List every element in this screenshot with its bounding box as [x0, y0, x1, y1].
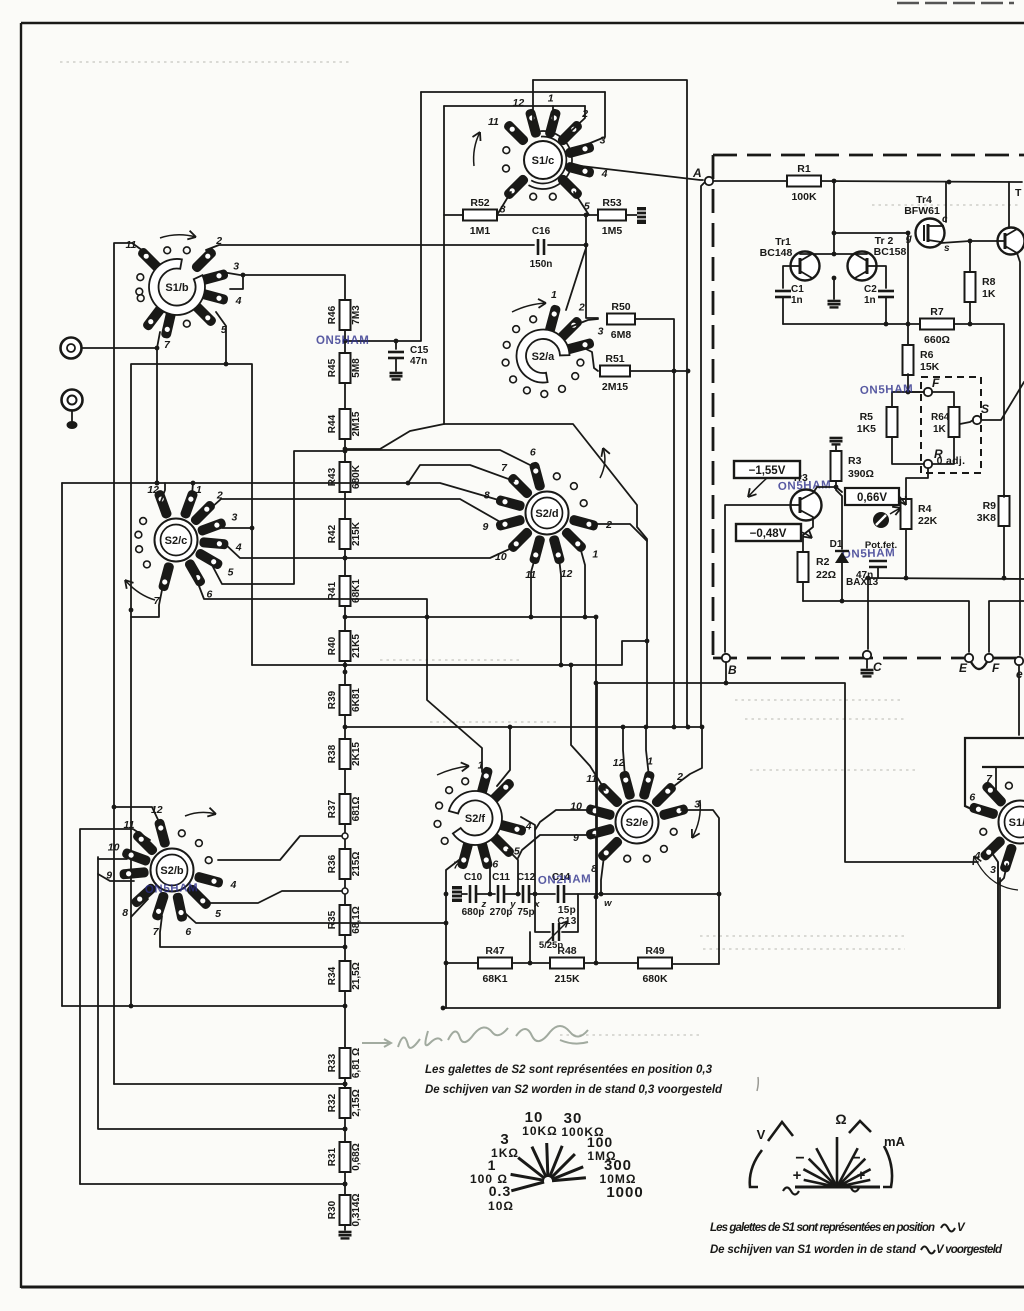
wire S1/a pin 3 join — [998, 864, 1007, 884]
wire S2/c pin 6 to S2/f bus — [194, 573, 427, 617]
wire S1/b pin 5 down-left bus — [129, 312, 226, 1008]
svg-text:R6: R6 — [920, 349, 934, 361]
wire riser e to S1/a box — [1018, 665, 1020, 735]
resistor R30 0,314Ω — [327, 1193, 362, 1226]
svg-text:R53: R53 — [602, 197, 621, 209]
wire bus x98 down to chain node 1129 — [98, 857, 347, 1131]
handwritten pencil note — [362, 1026, 588, 1048]
wire S1/c pin 12 up — [532, 80, 534, 122]
svg-text:ON5HAM: ON5HAM — [316, 335, 369, 347]
node e — [1015, 657, 1023, 681]
svg-text:3: 3 — [598, 325, 604, 337]
svg-text:R38: R38 — [327, 744, 338, 763]
resistor R42 215K — [327, 519, 362, 549]
wire S2/f pin 4 to x node — [521, 817, 537, 896]
wire bus y683 right — [726, 683, 978, 862]
wire S1/c pin 2 up — [570, 106, 585, 132]
capacitor C2 1n — [864, 284, 894, 306]
svg-text:−1,55V: −1,55V — [749, 465, 786, 477]
resistor R39 6K81 — [327, 685, 362, 715]
wire enclosure S2/a bottom — [444, 424, 647, 727]
wire bus y665 from chain — [252, 639, 649, 668]
svg-text:10KΩ: 10KΩ — [522, 1124, 558, 1138]
wire R4 down to bus — [905, 530, 907, 578]
svg-text:215K: 215K — [554, 973, 580, 985]
rotary switch S1/b — [125, 231, 241, 351]
svg-text:ON2HAM: ON2HAM — [538, 873, 592, 887]
wire C2 down — [885, 297, 887, 324]
svg-text:R40: R40 — [327, 636, 338, 655]
wire S1/b pin 4 join pin 3 wire — [230, 273, 245, 289]
svg-text:3: 3 — [233, 261, 239, 273]
transistor Tr1 BC148 — [760, 236, 820, 281]
resistor R2 — [798, 552, 809, 582]
svg-text:2,15Ω: 2,15Ω — [351, 1089, 362, 1116]
wire S2/e pin 12 up — [623, 727, 625, 777]
svg-text:BC148: BC148 — [760, 247, 793, 259]
svg-text:1n: 1n — [864, 295, 876, 306]
svg-text:7: 7 — [501, 462, 508, 474]
svg-text:6: 6 — [185, 926, 191, 938]
svg-text:De schijven van S2 worden in d: De schijven van S2 worden in de stand 0,… — [425, 1084, 723, 1096]
wire S2/f pin 5 down — [508, 850, 520, 896]
wire S1/a pin 7 up — [995, 767, 997, 792]
svg-text:R32: R32 — [327, 1093, 338, 1112]
wire S2/f pin 6 down — [488, 861, 493, 896]
wire Tr4 collector up — [945, 182, 947, 222]
resistor R51 2M15 — [600, 353, 630, 393]
wire R8 down — [969, 302, 971, 324]
rotary switch S2/a — [502, 289, 603, 397]
wire S2/b pin 4 to chain node 836 — [218, 836, 342, 860]
meter dial fan symbol — [750, 1111, 906, 1195]
svg-text:10: 10 — [108, 841, 120, 853]
resistor R38 2K15 — [327, 739, 362, 769]
box -0.48V — [736, 524, 812, 541]
capacitor C14 — [552, 872, 571, 903]
svg-text:680K: 680K — [351, 464, 362, 489]
svg-text:BFW61: BFW61 — [904, 205, 940, 217]
svg-text:R: R — [934, 447, 943, 461]
wire R51 right to box edge — [630, 369, 690, 374]
svg-text:R9: R9 — [983, 500, 997, 512]
box 0.66V — [845, 488, 906, 505]
wire S2/d pin 1 down — [580, 547, 587, 619]
wire R64 down to R — [932, 438, 954, 464]
sine V symbol line 2 — [921, 1244, 1003, 1256]
svg-text:12: 12 — [561, 568, 573, 580]
border frame bottom — [21, 1286, 1024, 1289]
scan artifact dotted rows — [60, 62, 1020, 1035]
wire S1/b pin 3 to chain top — [222, 272, 345, 302]
wire S2/b pin 9 to bus x98 — [98, 874, 134, 881]
svg-text:+: + — [793, 1167, 802, 1184]
wire S2/b pin 7 to chain node 947 — [160, 916, 345, 947]
svg-text:ON5HAM: ON5HAM — [860, 383, 914, 397]
wire B down and bottom frame bus — [597, 662, 728, 897]
svg-text:8: 8 — [484, 490, 490, 502]
wire x node to trimmer — [535, 894, 550, 932]
node B — [722, 654, 737, 677]
svg-text:3: 3 — [231, 511, 237, 523]
wire R47 row left — [446, 962, 478, 964]
svg-text:6: 6 — [969, 792, 975, 804]
wire R9 to bus — [1003, 526, 1005, 578]
wire S2/a pin 2 to R50 — [570, 319, 598, 327]
resistor R35 68,1Ω — [327, 905, 362, 935]
svg-text:1: 1 — [592, 549, 598, 561]
resistor R52 1M1 — [463, 197, 497, 237]
resistor R33 6,81 Ω — [327, 1048, 362, 1078]
diode D1 BAX13 — [830, 539, 879, 588]
svg-text:S2/a: S2/a — [532, 351, 556, 363]
wire S1/c pin 3 up — [578, 92, 605, 148]
wire trimmer right — [562, 894, 578, 932]
svg-text:1M5: 1M5 — [602, 225, 623, 237]
wire R9 up — [1003, 495, 1005, 497]
svg-text:R46: R46 — [327, 305, 338, 324]
transistor Tr5 partial — [996, 187, 1024, 255]
wire S2/c pin 5 to chain node 449 — [212, 449, 347, 584]
wire trimmer junction — [529, 932, 531, 963]
svg-text:5: 5 — [215, 908, 221, 920]
svg-text:T: T — [1015, 187, 1022, 199]
wire S1/b pin 7 junction down — [155, 346, 160, 486]
wire S2/e pin 10 left — [535, 810, 592, 830]
wire R49 right riser — [672, 963, 719, 965]
svg-text:2M15: 2M15 — [602, 381, 628, 393]
svg-text:0,314Ω: 0,314Ω — [351, 1193, 362, 1226]
wire R52 R53 bottom rail — [444, 213, 599, 218]
svg-text:1: 1 — [551, 289, 557, 301]
svg-text:7M3: 7M3 — [351, 305, 362, 325]
svg-text:F: F — [932, 376, 940, 390]
svg-text:7: 7 — [986, 773, 993, 785]
svg-text:R39: R39 — [327, 690, 338, 709]
svg-text:S2/d: S2/d — [535, 508, 558, 520]
rotary switch S2/b — [106, 804, 236, 938]
wire S2/e pin 1 up — [646, 727, 649, 777]
wire R48 to R49 — [584, 961, 638, 966]
svg-text:R51: R51 — [605, 353, 624, 365]
svg-text:4: 4 — [229, 879, 236, 891]
wire riser to node A — [701, 181, 706, 727]
wire bus x586 S2/a pin1 net — [584, 215, 598, 318]
svg-text:1: 1 — [196, 484, 202, 496]
wire Tr4 source to Tr5 base — [941, 239, 996, 244]
svg-text:0.3: 0.3 — [489, 1183, 511, 1199]
resistor R43 680K — [327, 462, 362, 492]
wire S1/c pin 4 to node A — [581, 166, 703, 180]
resistor R8 1K — [965, 272, 976, 302]
chassis hatch at R53 — [637, 207, 646, 224]
wire S2/c pin 1 up — [192, 483, 193, 495]
svg-text:215K: 215K — [351, 521, 362, 546]
node E — [959, 654, 973, 675]
node F adj — [924, 376, 940, 396]
wire S2/c pin 12 to bus — [160, 483, 165, 504]
capacitor C12 75p — [517, 872, 536, 918]
svg-text:0,66V: 0,66V — [857, 492, 887, 504]
resistor R41 68K1 — [327, 576, 362, 606]
wire S2/e pin 8 down to node w — [601, 856, 604, 894]
svg-text:1: 1 — [548, 93, 554, 105]
wire S2/b pin 11 to bus x80 — [80, 829, 150, 1184]
wire resistor chain spine — [344, 302, 346, 1230]
svg-text:ON5HAM: ON5HAM — [778, 479, 832, 493]
svg-text:E: E — [959, 661, 968, 675]
svg-text:2K15: 2K15 — [351, 742, 362, 766]
svg-text:4: 4 — [235, 542, 242, 554]
svg-text:3K8: 3K8 — [977, 512, 996, 524]
box -1.55V — [734, 461, 800, 497]
wire D1 down — [841, 563, 843, 601]
svg-text:15K: 15K — [920, 361, 940, 373]
wire S2/b pin 5 to chain node 891 — [207, 891, 342, 903]
wire S2/d pin 11 down — [529, 558, 535, 619]
svg-text:9: 9 — [573, 832, 579, 844]
wire S1/c pin 8 skirt — [497, 192, 511, 215]
node A — [692, 166, 713, 185]
resistor R6 15K — [903, 345, 914, 375]
ground above R3 — [830, 438, 843, 444]
svg-text:S2/b: S2/b — [160, 865, 184, 877]
svg-text:215Ω: 215Ω — [351, 852, 362, 877]
open nodes on chain — [342, 833, 348, 894]
svg-text:C10: C10 — [464, 872, 483, 883]
rotary switch S1/a — [968, 773, 1024, 876]
ground under C — [861, 670, 874, 676]
wire R7 right — [954, 322, 1004, 495]
resistor R44 2M15 — [327, 409, 362, 439]
wire ground to R3 — [835, 446, 837, 450]
wire box line2 — [421, 91, 605, 93]
wire Tr1 base to C1 — [783, 266, 791, 288]
wire R1 to top rail — [821, 179, 1022, 185]
wire Tr4 source node down — [969, 241, 971, 272]
wire bottom bus y1008 — [441, 878, 1000, 1010]
wire R64 wiper to S — [960, 420, 973, 424]
svg-text:C15: C15 — [410, 345, 429, 356]
svg-text:R5: R5 — [860, 411, 874, 423]
svg-text:8: 8 — [122, 907, 128, 919]
ground between Tr1 Tr2 — [828, 301, 841, 307]
svg-text:S1/a: S1/a — [1009, 817, 1024, 829]
svg-text:R2: R2 — [816, 556, 830, 568]
svg-text:100: 100 — [587, 1134, 613, 1150]
svg-text:5: 5 — [228, 567, 234, 579]
wire S1/c pin 5 skirt — [574, 192, 589, 215]
wire bottom rail y324 — [783, 322, 920, 327]
wire S1/c pin 1 up — [552, 106, 554, 120]
resistor R46 7M3 — [327, 300, 362, 330]
svg-text:12: 12 — [147, 484, 159, 496]
svg-text:C11: C11 — [492, 872, 510, 883]
svg-text:D1: D1 — [830, 539, 843, 550]
svg-text:+: + — [857, 1167, 866, 1184]
svg-text:390Ω: 390Ω — [848, 468, 874, 480]
junction dots on chain — [343, 339, 348, 1187]
wire bus x80 to chain node 1184 — [80, 1182, 347, 1187]
wire rail to emitter bar — [832, 181, 837, 254]
wire C16 right to S2/a bus — [548, 244, 586, 246]
svg-text:3: 3 — [990, 864, 996, 876]
wire box line1 top — [533, 80, 687, 727]
potentiometer pot.fet. — [865, 507, 901, 551]
svg-text:150n: 150n — [530, 259, 553, 270]
wire capacitor row — [462, 893, 467, 895]
wire Tr5 emitter down — [1017, 253, 1020, 655]
wire R47 to R48 — [512, 961, 550, 966]
svg-text:R42: R42 — [327, 524, 338, 543]
dashed box amplifier enclosure — [713, 155, 1024, 658]
wire S to edge diag — [981, 382, 1024, 420]
svg-text:R64: R64 — [931, 412, 950, 423]
wire R50 right to bus x674 — [635, 319, 676, 727]
svg-text:−0,48V: −0,48V — [750, 528, 787, 540]
svg-text:R50: R50 — [611, 301, 630, 313]
svg-text:z: z — [480, 899, 486, 910]
svg-text:21K5: 21K5 — [351, 634, 362, 658]
wire z segment — [476, 893, 495, 895]
svg-text:F: F — [992, 661, 1000, 675]
svg-text:R44: R44 — [327, 414, 338, 433]
svg-text:ON5HAM: ON5HAM — [145, 882, 199, 896]
resistor R64 — [949, 407, 960, 437]
wire chain node 341 to center box left edge — [396, 92, 421, 341]
rotary switch S2/e — [570, 755, 700, 875]
transistor Tr2 BC158 — [848, 235, 907, 281]
svg-text:1K: 1K — [982, 288, 996, 300]
wire A to R1 — [713, 180, 787, 182]
svg-text:ON5HAM: ON5HAM — [842, 547, 896, 561]
svg-text:68,1Ω: 68,1Ω — [351, 906, 362, 933]
wire bus y483 S2/c pin 1 and S2/d pin 8 — [62, 481, 502, 501]
svg-text:S: S — [981, 402, 989, 416]
box S1/a enclosure — [965, 738, 1024, 812]
svg-text:A: A — [692, 166, 702, 180]
wire R2 bottom to bus — [802, 583, 804, 601]
svg-text:S2/e: S2/e — [626, 817, 649, 829]
wire node to Tr4 gate — [834, 232, 908, 234]
resistor R50 6M8 — [607, 301, 635, 341]
stray pencil mark — [757, 1077, 758, 1091]
svg-text:S1/b: S1/b — [165, 282, 189, 294]
svg-text:68K1: 68K1 — [482, 973, 507, 985]
svg-text:R8: R8 — [982, 276, 996, 288]
wire S2/f pin 2 up to bus y727 — [497, 727, 510, 786]
svg-text:B: B — [728, 663, 737, 677]
svg-text:R35: R35 — [327, 910, 338, 929]
svg-text:−: − — [851, 1150, 860, 1167]
wire chain node to C15 — [345, 339, 398, 349]
wire S2/e pin 3 to R49 riser — [681, 810, 721, 964]
wire ground at C — [866, 659, 868, 668]
resistor R3 — [831, 451, 842, 481]
wire Tr3 emitter down — [803, 517, 813, 551]
wire S2/a pin 3 to R51 — [582, 347, 598, 371]
svg-text:De schijven van S1 worden in d: De schijven van S1 worden in de stand — [710, 1244, 917, 1256]
svg-text:1M1: 1M1 — [470, 225, 491, 237]
wire R6 to F — [906, 374, 924, 394]
svg-text:V: V — [957, 1222, 966, 1234]
border frame left — [20, 23, 22, 1288]
wire S2/c pin 3 down-up link — [222, 362, 254, 531]
svg-text:2: 2 — [578, 301, 585, 313]
resistor R9 — [999, 496, 1010, 526]
wire F to R5 — [892, 392, 924, 406]
arc arrow S1/a — [974, 856, 1018, 890]
wire collector node to D1 riser — [836, 487, 842, 492]
svg-text:C16: C16 — [532, 226, 551, 237]
svg-text:S1/c: S1/c — [532, 155, 555, 167]
wire gate bus down — [906, 231, 911, 344]
wire left bus tap to chain node R33-R32 — [114, 1082, 347, 1087]
svg-text:22K: 22K — [918, 515, 938, 527]
wire terminal lower stub — [71, 410, 73, 421]
resistor R37 681Ω — [327, 794, 362, 824]
svg-text:R47: R47 — [485, 945, 504, 957]
svg-text:S2/c: S2/c — [165, 535, 188, 547]
svg-text:−: − — [795, 1150, 804, 1167]
wire S2/d pin 2 right — [592, 524, 647, 541]
transistor Tr4 BFW61 — [904, 194, 950, 254]
resistor R49 680K — [638, 945, 672, 985]
resistor R4 — [901, 499, 912, 529]
svg-text:5M8: 5M8 — [351, 358, 362, 378]
wire left bus x62 down — [61, 483, 63, 1006]
wire bus y577 — [866, 576, 1024, 581]
svg-text:C1: C1 — [791, 284, 804, 295]
resistor R1 100K — [787, 163, 821, 203]
svg-text:7: 7 — [153, 926, 160, 938]
dashed box bottom hop E-F — [970, 660, 988, 669]
wire chain node 1006 long bus — [62, 1005, 345, 1007]
wire Tr2 base to C2 — [876, 266, 886, 288]
svg-text:R4: R4 — [918, 503, 932, 515]
svg-text:47n: 47n — [410, 356, 427, 367]
wire Tr1-Tr2 center ground — [832, 276, 837, 299]
wire C1 down — [782, 297, 784, 324]
svg-text:1K: 1K — [933, 424, 947, 435]
rotary switch S2/d — [482, 447, 612, 581]
terminal lower blob — [67, 421, 78, 429]
wire emitter bar Tr1-Tr2 — [800, 252, 867, 257]
svg-text:c: c — [942, 214, 948, 225]
wire C15 to ground — [395, 358, 397, 371]
svg-text:R37: R37 — [327, 799, 338, 818]
svg-text:V voorgesteld: V voorgesteld — [936, 1244, 1003, 1256]
svg-text:C: C — [873, 660, 882, 674]
wire S2/c pin 3 riser down to bus y665 — [251, 528, 253, 665]
chassis hatch capacitor row — [452, 886, 462, 902]
wire S2/c pin 7 to bus x131 — [131, 590, 162, 617]
wire x segment — [529, 893, 555, 895]
node R adj — [924, 447, 943, 468]
svg-text:R7: R7 — [930, 306, 944, 318]
resistor R7 660Ω — [920, 306, 954, 346]
resistor R36 215Ω — [327, 849, 362, 879]
svg-text:6,81 Ω: 6,81 Ω — [351, 1048, 362, 1078]
resistor R32 2,15Ω — [327, 1088, 362, 1118]
node C — [863, 651, 882, 674]
rotary switch S2/c — [125, 484, 242, 607]
dashed box 0 adj — [921, 377, 981, 473]
wire S2/e pin 9 left — [518, 835, 595, 858]
svg-text:7: 7 — [164, 339, 171, 351]
resistor R31 0,68Ω — [327, 1142, 362, 1172]
svg-text:100K: 100K — [791, 191, 817, 203]
